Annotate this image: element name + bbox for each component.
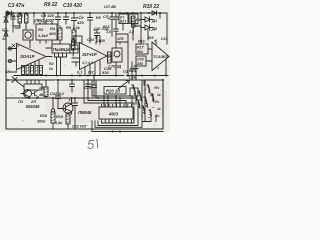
capacitor C21 bbox=[73, 98, 78, 129]
svg-text:4: 4 bbox=[156, 66, 159, 70]
svg-text:R10 22: R10 22 bbox=[143, 4, 159, 10]
DIP pin comb bbox=[105, 122, 128, 124]
wire mid rail B bbox=[6, 79, 163, 81]
svg-text:5: 5 bbox=[87, 137, 95, 150]
svg-text:1,7,4,5: 1,7,4,5 bbox=[82, 61, 94, 65]
svg-text:R19: R19 bbox=[56, 115, 64, 119]
svg-text:С10 420: С10 420 bbox=[63, 3, 82, 9]
resistor R2 bbox=[25, 14, 29, 23]
svg-text:С4 420: С4 420 bbox=[10, 13, 24, 18]
svg-text:1к: 1к bbox=[157, 93, 161, 97]
box above U2 bbox=[74, 36, 82, 43]
wire right vertical bbox=[162, 80, 164, 129]
svg-text:0,1: 0,1 bbox=[77, 70, 83, 75]
svg-text:30к: 30к bbox=[137, 50, 143, 54]
svg-text:R2: R2 bbox=[49, 62, 54, 66]
resistor R4 bbox=[58, 28, 62, 40]
IC DA2 box bbox=[52, 44, 70, 53]
arrow cross bbox=[118, 81, 129, 90]
squiggle ticks bbox=[144, 87, 156, 118]
wire right top drop bbox=[148, 13, 167, 44]
svg-text:R5 1,3к: R5 1,3к bbox=[66, 25, 81, 30]
resistor network R9b bbox=[35, 66, 38, 75]
diode VD2 bbox=[4, 27, 8, 42]
wire bottom bus bbox=[6, 97, 136, 99]
svg-text:4В: 4В bbox=[38, 93, 44, 97]
transistor T2 bbox=[24, 90, 32, 98]
capacitor C7 bbox=[13, 24, 20, 32]
svg-text:ЗОЧ1Р: ЗОЧ1Р bbox=[82, 52, 97, 57]
svg-text:R15: R15 bbox=[129, 69, 137, 73]
resistor R11 bbox=[72, 40, 76, 50]
scan tone blotches bbox=[7, 25, 168, 123]
svg-text:1,0: 1,0 bbox=[106, 30, 111, 34]
routing bus 2 bbox=[98, 103, 138, 126]
capacitor C14a bbox=[114, 26, 118, 34]
transistor T1 bbox=[63, 103, 73, 113]
junction dots mid rails bbox=[7, 75, 167, 100]
squiggle resistor 4 bbox=[147, 85, 150, 93]
resistor R1 bbox=[18, 14, 22, 23]
svg-text:ЛМ648: ЛМ648 bbox=[77, 110, 92, 115]
squiggle group heavier bbox=[132, 85, 154, 116]
svg-text:6Вход: 6Вход bbox=[5, 69, 18, 74]
svg-text:Л3: Л3 bbox=[17, 99, 24, 104]
routing bus 3 bbox=[95, 80, 142, 127]
svg-text:R8: R8 bbox=[136, 17, 142, 22]
diode left lower bbox=[12, 77, 17, 83]
op-amp U1 bottom pins bbox=[31, 60, 39, 66]
squiggle resistor 2 bbox=[138, 91, 142, 101]
bus dots above DIP bbox=[103, 95, 121, 99]
resistor R18 bbox=[51, 112, 55, 123]
svg-text:С3 47н: С3 47н bbox=[8, 3, 24, 9]
svg-text:R9 22: R9 22 bbox=[44, 2, 58, 8]
bus dots bbox=[112, 131, 122, 133]
op-amp U3 output bbox=[165, 59, 167, 76]
frame left bbox=[5, 12, 7, 129]
capacitor C22a bbox=[56, 80, 61, 109]
capacitor C23 bbox=[70, 80, 75, 92]
svg-text:530: 530 bbox=[102, 70, 109, 75]
squiggle resistor 5 bbox=[142, 106, 145, 114]
wire drops to DIP bus bbox=[84, 80, 136, 107]
svg-text:ПЗ: ПЗ bbox=[123, 70, 129, 74]
bus line 2 above DIP bbox=[84, 103, 134, 105]
resistor network R6 bbox=[22, 66, 25, 75]
wire drops from top rail bbox=[34, 13, 160, 44]
svg-text:С9 420: С9 420 bbox=[41, 13, 55, 18]
svg-text:Д2: Д2 bbox=[151, 26, 158, 31]
IC DD1 DIP bbox=[99, 107, 133, 119]
svg-text:Д1: Д1 bbox=[151, 18, 158, 23]
capacitor C17 bbox=[134, 66, 138, 76]
right verticals bbox=[136, 80, 145, 122]
svg-text:ЗОА1Р: ЗОА1Р bbox=[20, 54, 35, 59]
resistor R12 bbox=[108, 52, 112, 63]
frame bottom bbox=[6, 128, 163, 130]
input terminal bbox=[8, 47, 11, 50]
diode VD0 inline bbox=[7, 11, 12, 16]
svg-text:1,7К,ЗД: 1,7К,ЗД bbox=[108, 65, 122, 69]
svg-text:ТСАЗБ5: ТСАЗБ5 bbox=[153, 55, 169, 59]
svg-text:420: 420 bbox=[76, 20, 84, 25]
squiggle resistor 7 bbox=[149, 110, 151, 116]
scan speckle noise bbox=[10, 15, 162, 121]
capacitor C12 bbox=[110, 13, 114, 30]
squiggle resistor 1 bbox=[132, 85, 136, 95]
diode inline top right bbox=[152, 11, 157, 15]
svg-text:140к: 140к bbox=[133, 24, 141, 28]
resistor R5 bbox=[72, 30, 76, 42]
capacitor C11 bbox=[88, 13, 93, 40]
capacitor C9 bbox=[64, 13, 69, 24]
resistor network R7 bbox=[26, 66, 29, 75]
svg-text:250: 250 bbox=[136, 62, 143, 66]
svg-text:СЛ 4В: СЛ 4В bbox=[104, 4, 116, 9]
svg-text:1,5к: 1,5к bbox=[55, 121, 63, 125]
svg-text:R20 1Л: R20 1Л bbox=[106, 89, 120, 94]
wires mid verticals bbox=[90, 36, 136, 80]
box before U2 bbox=[70, 45, 78, 53]
boxed R17 bbox=[136, 44, 148, 54]
boxed R20 bbox=[104, 87, 126, 95]
svg-text:2,2: 2,2 bbox=[128, 30, 134, 34]
junction dots top rail bbox=[12, 12, 161, 14]
squiggle resistor 6 bbox=[151, 94, 154, 102]
diode D2 bbox=[141, 25, 153, 30]
svg-text:Вх2: Вх2 bbox=[130, 20, 136, 24]
svg-text:1к: 1к bbox=[157, 107, 161, 111]
squiggle resistor 3 bbox=[144, 97, 148, 107]
op-amp U3 bbox=[152, 42, 169, 71]
DIP top pins bbox=[102, 105, 132, 108]
svg-text:100: 100 bbox=[98, 38, 105, 43]
transistor T3 box bbox=[23, 30, 33, 40]
boxed out1 bbox=[119, 14, 128, 24]
wire lower-left bbox=[17, 82, 30, 91]
svg-text:R16: R16 bbox=[138, 40, 146, 44]
DIP bottom pins bbox=[102, 119, 132, 123]
resistor R8 bbox=[132, 16, 136, 27]
svg-text:Лч: Лч bbox=[154, 86, 159, 90]
diode D1 bbox=[141, 17, 153, 22]
routing bus 1 bbox=[102, 107, 135, 123]
svg-text:1М: 1М bbox=[39, 86, 44, 90]
diode VD1 bbox=[4, 13, 8, 27]
svg-text:I32: I32 bbox=[88, 70, 94, 75]
capacitor C10 bbox=[72, 13, 77, 25]
resistor network R10b bbox=[40, 66, 43, 75]
bus line 3 above DIP bbox=[88, 101, 126, 108]
svg-text:Т1: Т1 bbox=[68, 98, 73, 103]
svg-text:1,5к0: 1,5к0 bbox=[38, 33, 49, 38]
svg-text:Лч: Лч bbox=[154, 100, 159, 104]
op-amp U2 pins bbox=[85, 60, 100, 75]
wire mid rail A bbox=[14, 75, 168, 77]
svg-text:300к: 300к bbox=[37, 120, 46, 124]
small box right of bus bbox=[130, 88, 138, 96]
svg-text:С24+: С24+ bbox=[84, 86, 94, 90]
op-amp U2 bbox=[80, 43, 108, 70]
capacitor C24 bbox=[86, 80, 91, 92]
paper background bbox=[0, 0, 170, 150]
svg-text:Вх1: Вх1 bbox=[120, 20, 126, 24]
wire up from meter bbox=[116, 42, 128, 76]
svg-text:1Л9: 1Л9 bbox=[117, 37, 123, 41]
svg-text:10: 10 bbox=[2, 36, 7, 41]
capacitor C4 bbox=[11, 13, 15, 24]
svg-text:1,9к: 1,9к bbox=[129, 76, 137, 80]
routing bus 4 bbox=[92, 121, 163, 132]
flat pack box bbox=[24, 84, 42, 90]
IC box DA1 bbox=[36, 24, 57, 40]
svg-text:40I3: 40I3 bbox=[108, 112, 118, 117]
wire top rail bbox=[6, 12, 167, 14]
wire to squiggles bbox=[137, 80, 156, 122]
resistor R13 bbox=[44, 87, 48, 97]
op-amp U1 bbox=[17, 44, 47, 70]
svg-text:R18: R18 bbox=[40, 114, 48, 118]
svg-text:С22 0,1: С22 0,1 bbox=[50, 91, 65, 96]
capacitor C25 bbox=[92, 76, 97, 97]
svg-text:С7: С7 bbox=[2, 27, 8, 32]
tiny annotations right of vertical bbox=[154, 86, 161, 118]
svg-text:С22 И2Г: С22 И2Г bbox=[72, 125, 88, 129]
resistor network R8b bbox=[31, 66, 34, 75]
transistor T3b bbox=[32, 90, 39, 98]
meter box bbox=[112, 48, 122, 62]
svg-text:2к: 2к bbox=[48, 67, 53, 71]
boxed C20 bbox=[136, 56, 146, 66]
svg-text:R13: R13 bbox=[103, 25, 110, 29]
svg-text:R3: R3 bbox=[38, 27, 44, 32]
svg-text:ВМ448: ВМ448 bbox=[26, 104, 40, 109]
capacitor C13 bbox=[114, 13, 118, 26]
capacitor C14 bbox=[72, 58, 80, 66]
capacitor C11b bbox=[94, 30, 100, 42]
svg-text:С23: С23 bbox=[161, 37, 168, 41]
squiggle resistor 8 bbox=[137, 100, 140, 108]
boxed filter bbox=[116, 34, 128, 42]
capacitor C8 bbox=[56, 13, 61, 26]
bus line 1 above DIP bbox=[92, 96, 132, 107]
svg-text:400: 400 bbox=[48, 31, 56, 36]
resistor R19 drop bbox=[66, 114, 70, 124]
boxed out2 bbox=[129, 14, 138, 24]
svg-text:Лч: Лч bbox=[154, 114, 159, 118]
svg-text:R17: R17 bbox=[137, 46, 145, 50]
svg-text:ПанВЦя: ПанВЦя bbox=[53, 47, 70, 52]
